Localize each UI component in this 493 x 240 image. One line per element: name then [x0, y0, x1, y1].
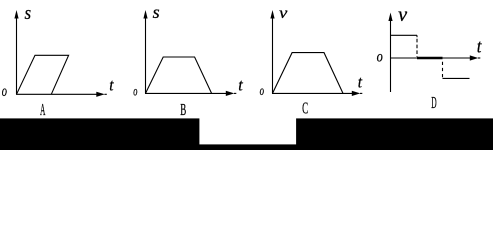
- graph D zero v thick segment on axis: [417, 57, 443, 60]
- graph C t-axis: [272, 92, 353, 94]
- graph D negative v segment: [443, 77, 470, 79]
- svg-text:B: B: [180, 100, 186, 119]
- graph A s-axis: [16, 17, 18, 94]
- graph D positive v segment: [391, 34, 417, 36]
- graph C v-axis arrowhead: [270, 10, 274, 19]
- graph D v-axis: [390, 20, 392, 92]
- svg-text:v: v: [279, 5, 288, 22]
- graph D t-axis arrowhead: [470, 55, 479, 60]
- graph B s-axis: [145, 17, 147, 93]
- svg-text:A: A: [40, 100, 46, 119]
- svg-text:v: v: [398, 4, 407, 26]
- svg-text:s: s: [153, 2, 160, 22]
- svg-text:t: t: [109, 76, 114, 95]
- svg-text:t: t: [358, 73, 363, 92]
- graph B s-axis arrowhead: [143, 10, 147, 19]
- bottom black strip full width: [0, 144, 493, 150]
- svg-text:C: C: [302, 99, 308, 118]
- svg-text:D: D: [431, 93, 436, 112]
- graph C trapezoid curve: [273, 53, 344, 94]
- graph C t-axis arrowhead: [352, 91, 361, 96]
- svg-text:o: o: [2, 83, 7, 100]
- graph A s-axis arrowhead: [14, 10, 18, 19]
- graph D dashed drop line 2: [442, 62, 444, 78]
- svg-text:t: t: [477, 36, 482, 57]
- graph B trapezoid curve: [146, 57, 212, 93]
- graph A t-axis: [16, 93, 97, 95]
- graph B t-axis: [145, 92, 227, 94]
- graph C v-axis: [272, 17, 274, 93]
- graph D dashed drop line 1: [416, 35, 418, 37]
- graph D t-axis: [390, 57, 471, 59]
- graph A t-axis arrowhead: [96, 92, 105, 97]
- svg-text:o: o: [260, 84, 264, 99]
- bottom right black block: [296, 118, 493, 150]
- svg-text:o: o: [133, 85, 137, 100]
- svg-text:o: o: [377, 49, 383, 66]
- graph B t-axis arrowhead: [226, 91, 235, 96]
- graph A parallelogram curve: [17, 55, 69, 94]
- bottom left black block: [0, 118, 199, 150]
- svg-text:s: s: [25, 3, 32, 24]
- graph D v-axis arrowhead: [388, 13, 392, 22]
- svg-text:t: t: [238, 75, 244, 94]
